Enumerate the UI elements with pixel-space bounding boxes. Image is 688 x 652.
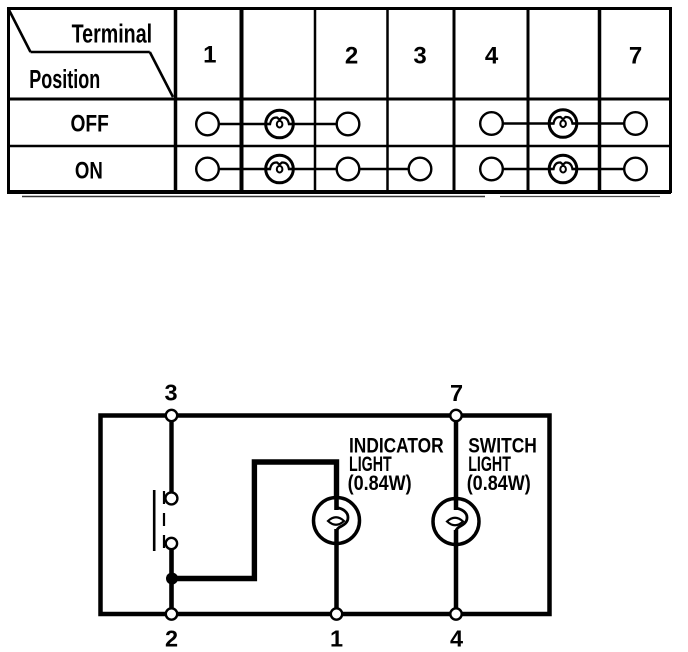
svg-text:ON: ON bbox=[75, 158, 103, 185]
table bottom border emphasis bbox=[7, 190, 671, 194]
header cell step line bbox=[31, 51, 150, 54]
column line 2/3 bbox=[386, 8, 389, 191]
OFF row lamp symbol (between 4 and 7) bbox=[549, 110, 577, 138]
column line 1/blank bbox=[240, 8, 244, 191]
OFF row continuity line 4 to lamp bbox=[498, 122, 554, 125]
table header bottom line bbox=[7, 98, 671, 101]
column line 3/4 bbox=[453, 8, 456, 191]
switch lamp symbol bbox=[433, 499, 479, 545]
svg-text:4: 4 bbox=[450, 626, 463, 652]
wire switch lower contact down to terminal 2 bbox=[169, 549, 174, 610]
ON row lamp symbol (between 4 and 7) bbox=[549, 155, 577, 183]
svg-text:1: 1 bbox=[330, 626, 343, 652]
OFF row terminal circle col 2 bbox=[337, 113, 360, 136]
scan shadow line under table bbox=[22, 196, 485, 198]
ON row continuity line 1 to lamp bbox=[214, 168, 270, 171]
ON row continuity line lamp to 2 bbox=[289, 168, 342, 171]
ON row terminal circle col 7 bbox=[624, 158, 647, 181]
table row divider OFF/ON bbox=[7, 145, 671, 148]
terminal 2 circle bbox=[166, 608, 177, 619]
OFF row continuity line lamp to 7 bbox=[573, 122, 630, 125]
ON row continuity line 4 to lamp bbox=[498, 168, 554, 171]
OFF row continuity line lamp to 2 bbox=[289, 123, 342, 126]
terminal 1 circle bbox=[331, 608, 342, 619]
pushbutton switch lower contact bbox=[166, 538, 177, 549]
svg-text:1: 1 bbox=[203, 42, 216, 69]
pushbutton switch dashed link bbox=[163, 491, 165, 549]
terminal 4 circle bbox=[450, 608, 461, 619]
label SWITCH LIGHT (0.84W) bbox=[467, 434, 537, 496]
OFF row terminal circle col 1 bbox=[196, 113, 219, 136]
svg-text:7: 7 bbox=[629, 43, 642, 70]
wire switch lamp to terminal 4 bbox=[454, 530, 459, 610]
column line blank/7 bbox=[598, 8, 602, 191]
ON row terminal circle col 3 bbox=[409, 158, 432, 181]
column line blank/2 bbox=[314, 8, 317, 191]
continuity table outer border bbox=[9, 9, 671, 192]
terminal 3 circle bbox=[166, 410, 177, 421]
svg-text:2: 2 bbox=[165, 626, 178, 652]
column line after header col bbox=[174, 8, 178, 191]
indicator lamp symbol bbox=[314, 498, 360, 544]
svg-text:7: 7 bbox=[450, 380, 463, 406]
pushbutton switch upper contact bbox=[165, 492, 177, 504]
OFF row terminal circle col 7 bbox=[624, 112, 647, 135]
svg-text:4: 4 bbox=[485, 43, 499, 70]
svg-text:(0.84W): (0.84W) bbox=[467, 471, 531, 495]
wire terminal 3 down to switch upper contact bbox=[169, 418, 173, 493]
pushbutton switch actuator bar bbox=[153, 490, 156, 551]
ON row terminal circle col 2 bbox=[337, 158, 360, 181]
terminal 7 circle bbox=[450, 410, 461, 421]
wire terminal 7 down to switch lamp bbox=[454, 418, 459, 510]
svg-text:3: 3 bbox=[164, 380, 177, 406]
svg-text:3: 3 bbox=[413, 43, 426, 70]
wire indicator lamp top lead bbox=[334, 497, 339, 510]
label INDICATOR LIGHT (0.84W) bbox=[348, 434, 444, 496]
svg-text:OFF: OFF bbox=[71, 110, 109, 137]
schematic connector box outline bbox=[101, 416, 550, 615]
OFF row lamp symbol (between 1 and 2) bbox=[266, 110, 294, 138]
ON row continuity line 2 to 3 bbox=[356, 168, 414, 171]
svg-text:Position: Position bbox=[29, 66, 100, 94]
column line 4/blank bbox=[527, 8, 530, 191]
ON row terminal circle col 4 bbox=[480, 158, 503, 181]
wire junction elbow to indicator lamp bbox=[172, 462, 337, 579]
ON row lamp symbol (between 1 and 2) bbox=[266, 155, 294, 183]
svg-text:(0.84W): (0.84W) bbox=[348, 471, 412, 495]
OFF row continuity line 1 to lamp bbox=[214, 123, 270, 126]
header cell diagonal upper bbox=[8, 8, 31, 52]
svg-text:2: 2 bbox=[345, 43, 358, 70]
ON row terminal circle col 1 bbox=[196, 158, 219, 181]
junction dot node bbox=[166, 573, 178, 585]
header cell diagonal lower bbox=[150, 52, 173, 97]
svg-text:Terminal: Terminal bbox=[72, 21, 153, 49]
wire indicator lamp to terminal 1 bbox=[334, 529, 339, 610]
ON row continuity line lamp to 7 bbox=[573, 168, 630, 171]
OFF row terminal circle col 4 bbox=[480, 112, 503, 135]
